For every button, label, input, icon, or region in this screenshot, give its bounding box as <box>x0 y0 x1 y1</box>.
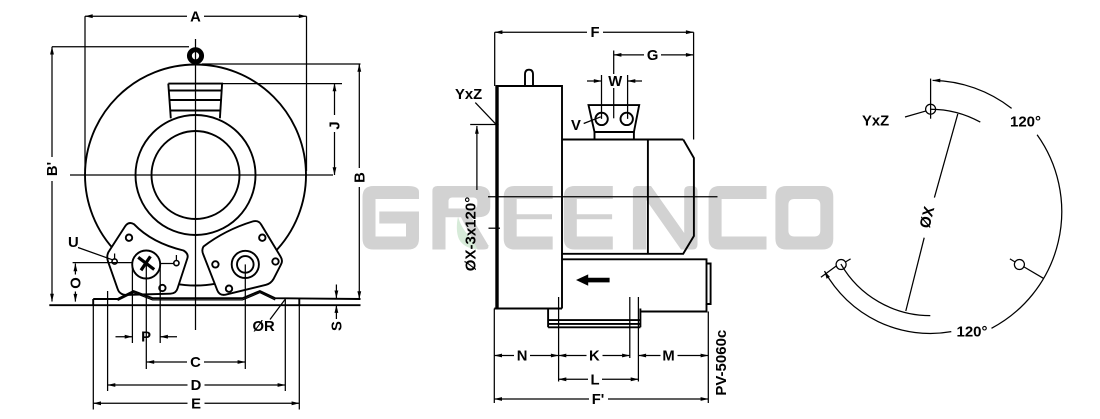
svg-text:A: A <box>190 10 201 26</box>
svg-text:ØR: ØR <box>252 319 275 335</box>
inlet silencer trapezoid <box>168 84 222 119</box>
svg-text:W: W <box>608 74 622 90</box>
svg-text:PV-5060c: PV-5060c <box>713 330 730 396</box>
A extension lines <box>85 16 307 171</box>
dimension J line <box>334 84 336 175</box>
dimension B' line <box>51 47 53 302</box>
lifting eye nub side <box>525 70 533 86</box>
watermark letter N <box>633 186 698 250</box>
svg-text:L: L <box>590 372 599 388</box>
svg-text:F: F <box>590 25 599 41</box>
svg-text:B': B' <box>45 162 61 176</box>
dimension B line <box>358 64 360 299</box>
flow direction arrow <box>576 274 610 285</box>
D extension lines <box>108 291 286 391</box>
watermark GREENCO letter G <box>363 186 420 250</box>
svg-text:K: K <box>589 349 600 365</box>
dimension L line <box>559 378 639 380</box>
dimension D line <box>108 384 286 386</box>
vertical centerline <box>195 39 197 330</box>
flange bolt tick lower <box>489 227 501 229</box>
svg-text:G: G <box>647 48 659 64</box>
YxZ leader line <box>475 103 496 125</box>
svg-text:P: P <box>141 330 151 346</box>
svg-text:N: N <box>517 349 528 365</box>
dimension S <box>335 285 337 299</box>
YxZ leader right view <box>905 111 927 117</box>
left foot shaft hub circle <box>132 251 160 279</box>
motor fan cowl <box>562 140 694 254</box>
angle arc right lower segment <box>992 135 1062 328</box>
F extension lines <box>495 32 694 139</box>
motor body top <box>562 139 683 141</box>
ØX diameter line <box>906 114 958 311</box>
horizontal centerline <box>70 174 333 176</box>
watermark letter O <box>775 186 833 250</box>
svg-text:YxZ: YxZ <box>455 87 482 103</box>
base plate inner sheet line <box>118 293 276 301</box>
right foot hole right <box>272 258 278 264</box>
svg-text:120°: 120° <box>956 324 987 341</box>
svg-text:U: U <box>68 235 79 251</box>
left foot hole top <box>126 235 132 241</box>
dimension P line <box>116 336 133 338</box>
top hole radial tick <box>930 79 932 119</box>
dimension F' line <box>494 398 708 400</box>
silencer rib 2 <box>170 99 222 101</box>
right F' extension line <box>707 312 709 404</box>
angle arc bottom segment <box>825 271 952 333</box>
bolt hole right <box>1014 260 1024 270</box>
U leader line <box>78 248 113 260</box>
right foot hole bottom <box>226 286 232 292</box>
N K M dimension lines <box>494 355 558 357</box>
svg-text:B: B <box>352 172 368 183</box>
inlet flange thick line <box>495 86 498 309</box>
G extension line <box>613 51 615 119</box>
terminal box trapezoid <box>589 105 640 132</box>
side view centerline <box>488 196 718 198</box>
bolt hole top <box>926 104 936 114</box>
svg-text:C: C <box>190 355 201 371</box>
outlet end lip <box>707 264 711 305</box>
svg-text:M: M <box>662 349 674 365</box>
svg-text:E: E <box>191 396 201 412</box>
watermark green leaf of logo <box>457 217 490 249</box>
angle arc right upper segment <box>933 80 1012 108</box>
B' top extension line <box>52 46 189 48</box>
mounting foot block <box>548 309 640 328</box>
right foot hole top <box>259 235 265 241</box>
dimension O line <box>74 264 76 302</box>
watermark letter E <box>504 186 553 250</box>
E extension lines <box>93 298 299 409</box>
shaft end cross X <box>138 256 154 270</box>
flange bolt tick top <box>470 124 498 126</box>
bolt circle arc top segment <box>930 109 980 122</box>
watermark letter R <box>432 186 490 250</box>
inlet ring outer circle <box>136 115 256 235</box>
svg-text:ØX-3x120°: ØX-3x120° <box>463 197 480 271</box>
J top extension line <box>223 83 343 85</box>
dimension W <box>587 80 602 82</box>
watermark letter E <box>564 186 613 250</box>
dimension F line <box>495 31 694 33</box>
base plate left end <box>92 299 94 305</box>
dimension A line <box>85 15 307 17</box>
ØX-3x120° dimension arrow <box>476 126 478 190</box>
dimension C line <box>147 361 246 363</box>
right foot hub inner circle <box>237 256 254 273</box>
silencer rib 3 <box>170 110 220 112</box>
base plate bottom edge <box>49 304 360 306</box>
base plate top edge with chevrons <box>93 291 360 299</box>
right foot hub outer circle <box>232 251 259 278</box>
svg-text:V: V <box>571 118 581 134</box>
svg-text:120°: 120° <box>1010 114 1041 131</box>
left hole radial tick <box>821 266 837 278</box>
cable gland left <box>595 113 607 125</box>
bolt hole left <box>836 260 846 270</box>
W extension lines <box>602 75 628 119</box>
bolt circle arc bottom-left segment <box>841 264 930 316</box>
V leader line <box>584 117 601 124</box>
svg-text:D: D <box>191 378 202 394</box>
left foot plate <box>107 223 187 295</box>
svg-text:YxZ: YxZ <box>862 114 889 130</box>
svg-text:F': F' <box>592 392 605 408</box>
B top extension line <box>202 63 361 65</box>
right foot plate <box>202 221 282 295</box>
right hub C extension line <box>244 264 246 369</box>
svg-text:O: O <box>68 277 84 289</box>
right foot hole left <box>212 261 218 267</box>
K L extension lines <box>559 297 639 382</box>
watermark letter C <box>709 186 767 250</box>
inlet ring inner circle <box>152 131 240 219</box>
outlet silencer box <box>562 259 707 311</box>
cable gland right <box>621 113 633 125</box>
blower housing main circle <box>85 65 306 286</box>
lifting eyelet <box>189 50 201 62</box>
svg-text:S: S <box>329 321 345 331</box>
left hub P extension lines <box>132 265 160 370</box>
base plate right end <box>298 298 300 305</box>
dimension E line <box>93 402 299 404</box>
horizontal line through left hub <box>73 262 174 265</box>
left foot hole bottom <box>159 285 165 291</box>
silencer rib 1 <box>169 90 222 92</box>
right stud circle with stem <box>174 255 179 266</box>
housing body outline <box>494 86 562 309</box>
terminal box base <box>595 132 634 140</box>
svg-text:J: J <box>328 121 344 129</box>
left stud circle with stem <box>112 254 117 265</box>
left F' extension line <box>493 309 495 404</box>
dimension G line <box>614 54 694 56</box>
ØR leader line <box>270 300 285 320</box>
angle arc bottom end segment <box>845 259 850 262</box>
right hole radial tick <box>1023 267 1043 279</box>
